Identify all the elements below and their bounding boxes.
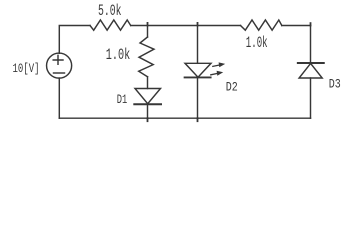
wire D1 bottom lead [147,104,149,118]
wire top-left segment [59,26,90,54]
node A junction tick (R2 branch, top) [147,23,149,26]
svg-text:5.0k: 5.0k [98,2,122,20]
wire left bottom (source to bottom rail) [58,78,60,118]
node D2 junction tick (bottom) [197,118,199,121]
source V1 minus sign [54,72,65,74]
wire R2 branch top lead [147,26,149,38]
wire R2 to D1 [147,77,149,89]
diode D1 (cathode down) triangle [135,89,161,104]
source V1 circle [47,53,72,78]
diode D1 cathode bar [134,103,161,105]
source V1 plus sign [53,55,63,64]
LED D2 triangle (cathode down) [185,63,211,77]
wire D2 bottom lead [197,77,199,118]
node B junction tick (D2 branch, top) [197,23,199,26]
node D1 junction tick (bottom) [147,118,149,121]
resistor R2 1.0k (vertical zigzag) [139,37,154,77]
svg-text:10[V]: 10[V] [13,61,40,76]
LED D2 cathode bar [185,76,211,78]
resistor R1 5.0k (top left, horizontal zigzag) [90,20,131,30]
node C junction tick (top-right corner) [310,23,312,25]
svg-text:D2: D2 [226,80,238,94]
wire D3 bottom lead [310,78,312,118]
wire D2 top lead [197,26,199,64]
diode D3 cathode bar (cathode up) [298,62,324,64]
wire top right segment [282,25,311,27]
diode D3 triangle (pointing up) [299,63,322,78]
wire bottom rail [59,117,310,119]
wire D3 top lead [310,26,312,64]
LED D2 light arrow upper [213,62,225,67]
LED D2 light arrow lower [211,71,223,76]
resistor R3 1.0k (top right, horizontal zigzag) [241,20,282,30]
wire top middle segment [131,25,241,27]
svg-text:1.0k: 1.0k [246,34,268,52]
svg-text:D3: D3 [329,77,341,91]
svg-text:1.0k: 1.0k [106,46,131,64]
svg-text:D1: D1 [117,93,128,107]
